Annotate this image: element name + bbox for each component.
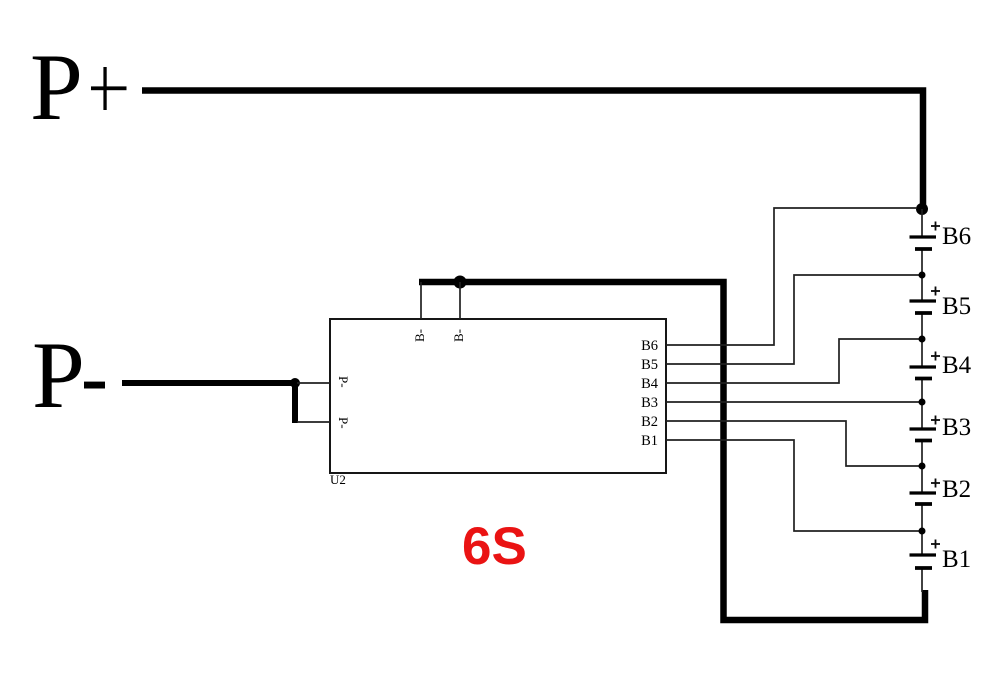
- svg-text:B-: B-: [451, 329, 466, 342]
- svg-text:B4: B4: [641, 376, 659, 392]
- svg-text:6S: 6S: [462, 517, 527, 576]
- svg-text:P: P: [30, 34, 83, 140]
- svg-text:U2: U2: [330, 472, 346, 487]
- svg-text:B4: B4: [942, 352, 972, 379]
- svg-text:B6: B6: [641, 338, 658, 354]
- svg-text:B5: B5: [641, 357, 658, 373]
- svg-text:B3: B3: [641, 395, 658, 411]
- svg-text:B6: B6: [942, 223, 971, 250]
- svg-text:B-: B-: [412, 329, 427, 342]
- svg-text:B2: B2: [641, 414, 658, 430]
- svg-text:P: P: [32, 322, 85, 428]
- svg-text:P-: P-: [336, 376, 351, 388]
- svg-text:B3: B3: [942, 414, 971, 441]
- svg-text:P-: P-: [336, 417, 351, 429]
- svg-text:B1: B1: [942, 546, 971, 573]
- svg-text:B2: B2: [942, 476, 971, 503]
- svg-text:B5: B5: [942, 293, 971, 320]
- svg-text:B1: B1: [641, 433, 658, 449]
